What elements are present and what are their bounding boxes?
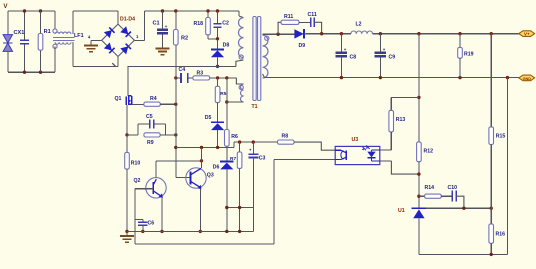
svg-text:C11: C11 — [308, 12, 317, 18]
wire Q2 emitter — [161, 197, 163, 232]
svg-text:R6: R6 — [231, 134, 238, 140]
capacitor C6 — [142, 220, 144, 223]
varistor RV (bowtie) — [3, 35, 12, 43]
bridge rectifier D1-D4 — [102, 24, 135, 56]
transformer T1 secondary winding — [263, 35, 268, 78]
resistor R10 — [126, 135, 128, 153]
resistor R8 — [278, 140, 295, 144]
wire C6 jog — [135, 219, 143, 221]
svg-text:D6: D6 — [213, 165, 220, 171]
svg-text:R8: R8 — [282, 134, 289, 140]
wire aux bottom pin — [227, 101, 244, 103]
junction dots output rail — [340, 32, 343, 35]
wire Q2 base branch — [134, 189, 136, 244]
svg-text:R12: R12 — [424, 149, 434, 155]
svg-text:R14: R14 — [425, 185, 435, 191]
optocoupler U3 — [335, 146, 380, 164]
svg-text:+: + — [165, 24, 168, 29]
diode D5 — [211, 121, 224, 123]
capacitor C9 — [379, 34, 381, 53]
svg-text:R5: R5 — [220, 91, 226, 97]
junction dots DC rail — [161, 9, 164, 12]
svg-text:R19: R19 — [464, 52, 474, 58]
wire Q1 source — [126, 105, 128, 135]
svg-text:C3: C3 — [259, 156, 266, 162]
transformer T1 auxiliary winding — [241, 84, 244, 102]
snubber riser — [278, 22, 281, 34]
wire R11 to C11 — [299, 21, 311, 23]
inductor LF1 common-mode choke — [54, 11, 56, 29]
resistor R12 — [417, 142, 422, 162]
resistor R2 — [175, 11, 177, 30]
wire output V+ rail — [305, 33, 351, 35]
wire R12 column — [418, 34, 420, 142]
wire Q3 emitter — [199, 188, 201, 231]
resistor R19 — [459, 34, 461, 48]
svg-text:CX1: CX1 — [14, 30, 25, 36]
svg-text:+: + — [383, 47, 386, 52]
svg-text:D1-D4: D1-D4 — [120, 16, 135, 22]
resistor R6 — [226, 78, 228, 130]
wire opto led pins — [372, 149, 380, 151]
pin tick on AC bottom wire — [112, 63, 115, 66]
wire AC bottom rail — [7, 11, 9, 35]
wire U1 ref row — [426, 207, 491, 209]
wire primary ground bus — [127, 230, 253, 232]
wire row B to R8 — [234, 141, 278, 143]
svg-text:D5: D5 — [205, 115, 212, 121]
wire opto lower right — [391, 161, 419, 174]
svg-text:R1: R1 — [44, 29, 51, 35]
svg-text:C6: C6 — [148, 221, 155, 227]
resistor R16 — [490, 208, 492, 224]
svg-text:C9: C9 — [389, 55, 396, 61]
svg-text:U1: U1 — [398, 208, 405, 214]
snubber capacitor C2 — [217, 11, 219, 24]
capacitor C5 and resistor R9 parallel — [127, 134, 138, 136]
wire C10 to ref row — [456, 196, 464, 208]
svg-text:GND: GND — [523, 77, 532, 81]
capacitor C4 — [180, 73, 182, 83]
inductor L2 — [351, 31, 373, 34]
transistor Q2 — [146, 178, 166, 198]
wire Q3 collector — [201, 147, 203, 168]
resistor R4 — [144, 102, 160, 106]
resistor R14 — [419, 195, 425, 197]
wire lower junction row — [227, 207, 254, 209]
wire bridge positive to DC rail — [135, 39, 145, 41]
wire R8 to opto — [294, 142, 335, 150]
svg-text:R4: R4 — [150, 96, 157, 102]
wire C11 down — [314, 22, 321, 33]
transistor Q1 MOSFET — [125, 97, 127, 106]
wire LF1 to bridge top — [72, 11, 74, 34]
svg-text:D8: D8 — [223, 43, 230, 49]
diode D9 — [294, 29, 303, 38]
svg-text:R16: R16 — [496, 232, 506, 238]
resistor R5 — [217, 78, 219, 86]
capacitor C11 — [310, 18, 312, 27]
resistor R1 — [40, 11, 42, 34]
svg-text:Q3: Q3 — [207, 173, 214, 179]
capacitor C3 — [252, 142, 254, 154]
port V+ — [519, 31, 535, 37]
wire Q1 drain — [127, 66, 129, 95]
wire snubber join — [207, 35, 209, 39]
svg-text:R11: R11 — [284, 14, 293, 20]
wire secondary bottom pin — [263, 74, 265, 78]
snubber resistor R18 — [207, 11, 209, 18]
wire LF1 to bridge bottom — [72, 42, 74, 66]
wire primary bottom pin — [236, 60, 244, 66]
ground at bridge negative — [91, 39, 102, 41]
svg-text:R9: R9 — [147, 140, 154, 146]
wire R13 top row — [391, 96, 419, 98]
shunt regulator U1 TL431 — [412, 207, 427, 209]
wire secondary return — [419, 253, 508, 255]
svg-text:R7: R7 — [230, 156, 236, 162]
wire bias column — [175, 45, 177, 177]
wire secondary rail to D9 — [278, 33, 294, 35]
resistor R13 — [390, 97, 392, 110]
wire Q1 gate to R4 — [132, 103, 144, 105]
wire output GND rail — [265, 77, 519, 79]
capacitor C10 — [441, 195, 452, 197]
svg-text:C5: C5 — [146, 114, 153, 120]
wire secondary top pin — [263, 33, 279, 35]
resistor R7 — [239, 142, 241, 152]
wire feedback return — [135, 243, 274, 245]
wire primary bottom net / drain net — [128, 65, 236, 67]
resistor R11 — [281, 20, 299, 24]
svg-text:C1: C1 — [153, 21, 160, 27]
wire primary top pin — [238, 11, 240, 16]
svg-text:R18: R18 — [194, 21, 204, 27]
svg-text:Q2: Q2 — [134, 178, 141, 184]
svg-text:R10: R10 — [131, 161, 141, 167]
svg-text:L2: L2 — [356, 22, 362, 28]
transformer T1 primary winding — [239, 18, 244, 58]
ground primary — [126, 231, 128, 235]
wire collector row A — [176, 146, 234, 148]
svg-text:C10: C10 — [448, 185, 458, 191]
diode D8 clamp — [217, 39, 219, 50]
ground under C1 — [156, 47, 170, 49]
capacitor CX1 — [24, 11, 26, 40]
svg-text:R3: R3 — [197, 71, 204, 77]
resistor R15 — [490, 34, 492, 127]
svg-text:V+: V+ — [524, 32, 530, 37]
transformer T1 core — [253, 17, 256, 101]
capacitor C1 — [162, 11, 164, 30]
svg-text:C2: C2 — [222, 21, 229, 27]
svg-text:Q1: Q1 — [115, 96, 122, 102]
svg-text:C8: C8 — [350, 55, 357, 61]
wire jog row A to row B — [233, 142, 235, 147]
svg-text:+: + — [344, 47, 347, 52]
wire AC top rail — [8, 10, 55, 12]
wire startup feedback row — [176, 77, 181, 79]
wire Q3 base row — [176, 176, 191, 178]
wire Q2 collector — [155, 161, 157, 178]
wire U1 anode — [418, 218, 420, 254]
transistor Q3 — [186, 168, 206, 188]
port GND — [519, 75, 535, 81]
resistor R3 — [193, 76, 210, 80]
svg-text:D9: D9 — [299, 43, 306, 49]
svg-text:LF1: LF1 — [74, 33, 84, 39]
wire aux top pin — [236, 78, 243, 84]
junction dots input rails — [23, 9, 26, 12]
svg-text:R2: R2 — [181, 36, 188, 42]
svg-text:C4: C4 — [179, 67, 186, 73]
capacitor C8 — [340, 34, 342, 53]
svg-text:U3: U3 — [352, 137, 359, 143]
svg-text:R15: R15 — [496, 134, 506, 140]
svg-text:R13: R13 — [396, 117, 406, 123]
svg-text:T1: T1 — [252, 104, 258, 110]
diode D6 — [226, 146, 228, 161]
